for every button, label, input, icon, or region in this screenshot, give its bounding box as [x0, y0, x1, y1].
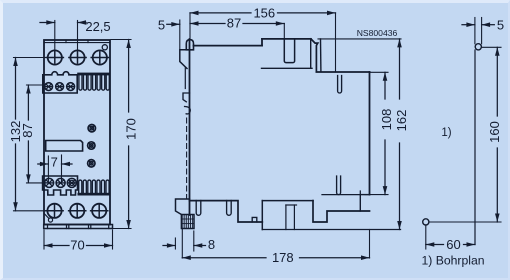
dimension 178 line [182, 230, 369, 265]
DIN clip latch [183, 93, 190, 102]
screw terminal L1 [46, 50, 63, 64]
connector comb upper [77, 73, 109, 91]
side bottom block slot [286, 205, 297, 230]
rear mounting foot [176, 199, 195, 229]
small index hole [102, 45, 107, 50]
control terminal strip top [43, 72, 77, 93]
dimension 87 mid line [190, 16, 284, 31]
dimension 87 line arrows text [20, 85, 35, 183]
connector comb lower [78, 180, 111, 195]
side view front edge [369, 72, 371, 195]
dimension 160 line [487, 47, 502, 222]
screw terminal L2 [69, 50, 86, 64]
screw terminal T3 [91, 204, 108, 218]
caption 1) Bohrplan [422, 254, 485, 268]
side view rear edge [189, 39, 191, 215]
torx screw T2 [88, 142, 95, 149]
dimension 162 extensions [318, 38, 401, 40]
top terminal block side [262, 39, 321, 72]
dimension 156 line [190, 5, 336, 20]
dimension 160 extensions [429, 47, 501, 222]
svg-text:1) Bohrplan: 1) Bohrplan [422, 254, 485, 268]
device label plate [46, 141, 83, 152]
dimension 108 extensions [365, 72, 388, 194]
DIN clip knob [186, 40, 193, 50]
dimension 5 left [158, 18, 180, 50]
side view top surface [194, 45, 263, 47]
side bottom profile left [190, 201, 263, 222]
svg-text:87: 87 [227, 16, 241, 31]
dimension 70 extension lines [44, 230, 113, 249]
control screw A3 [67, 83, 75, 91]
dimension 87 mid extension [283, 24, 285, 39]
dimension 132 line arrows text [8, 58, 23, 211]
side bottom leg B [227, 201, 232, 216]
side bottom leg A [196, 201, 201, 216]
svg-text:70: 70 [70, 238, 84, 253]
front step [322, 191, 370, 211]
label NS800436 [357, 28, 398, 38]
front view mounting base strip [44, 225, 113, 229]
svg-text:160: 160 [487, 121, 502, 143]
svg-text:5: 5 [158, 18, 165, 33]
dimension 70 line arrows text [44, 238, 113, 253]
front view body outline [44, 40, 110, 225]
svg-text:60: 60 [446, 237, 460, 252]
dimension 162 line [394, 39, 409, 230]
lower control terminal strip [43, 176, 78, 195]
dimension 7 line and arrows [38, 154, 72, 169]
drill plan dimension 5 line [462, 18, 504, 33]
top terminal slot [284, 39, 294, 63]
drill plan centre line [474, 50, 476, 245]
dimension 7 extension lines [48, 155, 61, 182]
screw terminal L3 [91, 50, 108, 64]
dimension 8 line [163, 237, 215, 252]
note 1) reference [441, 127, 451, 139]
side view front top surface [316, 71, 369, 73]
drill hole bottom [423, 219, 429, 225]
svg-text:7: 7 [51, 154, 58, 169]
dimension 22,5 line and arrows [40, 19, 111, 34]
svg-text:178: 178 [272, 250, 294, 265]
dimension 60 line [426, 237, 475, 252]
svg-text:1): 1) [441, 127, 451, 139]
DIN clip slider [184, 68, 186, 89]
svg-text:87: 87 [20, 123, 35, 137]
DIN rail hidden line [186, 118, 188, 198]
dimension 156 extension [190, 13, 336, 72]
screw terminal T1 [46, 204, 63, 218]
lower control screw B3 [67, 178, 76, 187]
front view sealing eyelet [44, 213, 53, 222]
dimension 108 line [379, 72, 394, 194]
svg-text:170: 170 [124, 118, 139, 140]
dimension 170 extension lines [111, 40, 131, 229]
svg-text:156: 156 [253, 5, 275, 20]
dimension 170 line arrows text [124, 40, 139, 229]
lower control screw B1 [45, 178, 54, 187]
svg-text:NS800436: NS800436 [357, 28, 398, 38]
svg-text:162: 162 [394, 110, 409, 132]
DIN clip spring [185, 107, 191, 114]
side bottom edge [262, 229, 400, 231]
dimension 22,5 extension lines [55, 21, 78, 58]
DIN clip claw [180, 50, 190, 69]
dimension 60 extensions [425, 226, 427, 250]
svg-text:5: 5 [497, 18, 504, 33]
dimension 132 extension lines [14, 58, 49, 211]
control screw A1 [45, 83, 53, 91]
control screw A2 [56, 83, 64, 91]
screw terminal T2 [69, 204, 86, 218]
drill hole top [475, 44, 481, 50]
drill plan dimension 5 extensions [475, 18, 482, 44]
torx screw T1 [88, 125, 95, 132]
side bottom block [262, 201, 369, 230]
torx screw T3 [88, 160, 95, 167]
dimension 87 extension lines [27, 85, 50, 183]
front slot lower [337, 176, 341, 195]
svg-text:22,5: 22,5 [85, 19, 110, 34]
svg-text:8: 8 [208, 237, 215, 252]
lower control screw B2 [56, 178, 65, 187]
svg-text:108: 108 [379, 109, 394, 131]
front slot upper [338, 76, 342, 94]
dimension 8 extensions [175, 229, 193, 259]
